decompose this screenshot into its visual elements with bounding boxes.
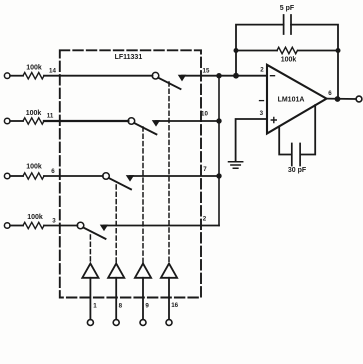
svg-text:LM101A: LM101A xyxy=(278,96,305,103)
wire C1 right to corner xyxy=(291,25,338,99)
compensation stub left (pin 1) xyxy=(279,127,291,155)
switch S2 contact arrow xyxy=(153,121,160,126)
wire S4 to bus corner, pin 2 xyxy=(104,225,219,227)
output terminal xyxy=(356,96,362,102)
logic terminal 1 xyxy=(87,320,93,326)
input terminal 2 xyxy=(4,118,10,124)
compensation stub right (pin 8) xyxy=(301,105,315,154)
switch S4 arm xyxy=(83,228,105,239)
svg-text:100k: 100k xyxy=(281,57,297,64)
driver triangle A2 xyxy=(108,264,124,278)
junction dot output xyxy=(335,96,341,102)
svg-text:3: 3 xyxy=(52,217,56,224)
junction dot feedback tap xyxy=(233,73,239,79)
control line S2 (dashed) xyxy=(142,127,144,263)
op-amp plus sign xyxy=(271,118,276,123)
svg-text:6: 6 xyxy=(328,90,332,97)
switch S4 pole circle xyxy=(77,222,84,229)
wire A4 to logic terminal, pin 16 xyxy=(168,278,170,320)
feedback vertical wire xyxy=(236,25,284,76)
switch S3 pole circle xyxy=(103,173,110,180)
wire feedback resistor left xyxy=(236,50,277,52)
svg-text:1: 1 xyxy=(93,303,97,310)
svg-text:11: 11 xyxy=(47,112,54,119)
resistor R4 100k xyxy=(23,222,44,228)
switch S2 arm xyxy=(134,123,156,134)
wire input2 to R2 xyxy=(10,120,23,122)
resistor R2 100k xyxy=(23,118,44,124)
wire A1 to logic terminal, pin 1 xyxy=(89,278,91,320)
switch S3 arm xyxy=(109,178,131,189)
logic terminal 3 xyxy=(140,320,146,326)
svg-text:100k: 100k xyxy=(26,110,42,117)
resistor Rf 100k xyxy=(277,47,297,53)
svg-text:100k: 100k xyxy=(26,163,42,170)
wire feedback resistor right xyxy=(298,50,338,52)
wire input1 to R1 xyxy=(10,75,23,77)
driver triangle A3 xyxy=(135,264,151,278)
input terminal 1 xyxy=(4,73,10,79)
svg-text:10: 10 xyxy=(201,111,208,118)
svg-text:2: 2 xyxy=(260,67,264,74)
wire R1 to switch S1 xyxy=(44,75,153,77)
junction dot feedback resistor right xyxy=(336,48,341,53)
wire R4 to switch S4 xyxy=(44,225,77,227)
svg-text:14: 14 xyxy=(49,67,56,74)
IC box LF11331 (dashed) xyxy=(60,50,201,297)
resistor R3 100k xyxy=(23,173,44,179)
driver triangle A1 xyxy=(82,264,98,278)
wire R2 to switch S2 xyxy=(44,120,128,122)
svg-text:8: 8 xyxy=(119,303,123,310)
summing bus vertical xyxy=(218,76,220,226)
svg-text:6: 6 xyxy=(51,168,55,175)
control line S1 (dashed) xyxy=(168,82,170,263)
op-amp minus sign xyxy=(271,75,275,77)
junction dot bus row2 xyxy=(216,118,221,123)
wire S1 to bus, pin 15 xyxy=(182,75,219,77)
control line S4 (dashed) xyxy=(89,235,91,263)
switch S1 arm xyxy=(158,78,180,89)
wire input3 to R3 xyxy=(10,175,23,177)
wire S3 to bus, pin 7 xyxy=(130,175,219,177)
ground symbol xyxy=(229,162,243,168)
svg-text:7: 7 xyxy=(203,166,207,173)
svg-text:100k: 100k xyxy=(27,214,43,221)
capacitor C1 5 pF plates xyxy=(284,15,291,34)
switch S2 pole circle xyxy=(128,118,135,125)
logic terminal 4 xyxy=(166,320,172,326)
wire op-amp non-inverting input xyxy=(236,119,267,162)
op-amp U1 triangle xyxy=(267,65,327,134)
wire S2 to bus, pin 10 xyxy=(156,120,219,122)
svg-text:2: 2 xyxy=(203,216,207,223)
driver triangle A4 xyxy=(161,264,177,278)
switch S3 contact arrow xyxy=(127,176,134,181)
control line S3 (dashed) xyxy=(115,185,117,263)
junction dot feedback resistor left xyxy=(234,48,239,53)
svg-text:LF11331: LF11331 xyxy=(115,54,143,61)
switch S4 contact arrow xyxy=(101,225,108,230)
capacitor C2 30 pF plates xyxy=(292,144,300,166)
wire bus to op-amp inverting input xyxy=(219,75,267,77)
logic terminal 2 xyxy=(113,320,119,326)
input terminal 4 xyxy=(4,223,10,229)
junction dot bus row3 xyxy=(216,173,221,178)
wire A3 to logic terminal, pin 9 xyxy=(142,278,144,320)
svg-text:15: 15 xyxy=(203,67,210,74)
svg-text:9: 9 xyxy=(145,303,149,310)
switch S1 contact arrow xyxy=(179,75,186,80)
wire R3 to switch S3 xyxy=(44,175,103,177)
stray mark xyxy=(260,100,264,102)
wire input4 to R4 xyxy=(10,225,23,227)
resistor R1 100k xyxy=(23,73,44,79)
input terminal 3 xyxy=(4,173,10,179)
wire A2 to logic terminal, pin 8 xyxy=(115,278,117,320)
junction dot bus row1 xyxy=(216,73,221,78)
output wire xyxy=(327,98,356,100)
svg-text:16: 16 xyxy=(171,302,178,309)
svg-text:5 pF: 5 pF xyxy=(280,5,295,12)
svg-text:100k: 100k xyxy=(26,64,42,71)
switch S1 pole circle xyxy=(152,72,159,79)
svg-text:30 pF: 30 pF xyxy=(288,167,307,174)
svg-text:3: 3 xyxy=(260,110,264,117)
